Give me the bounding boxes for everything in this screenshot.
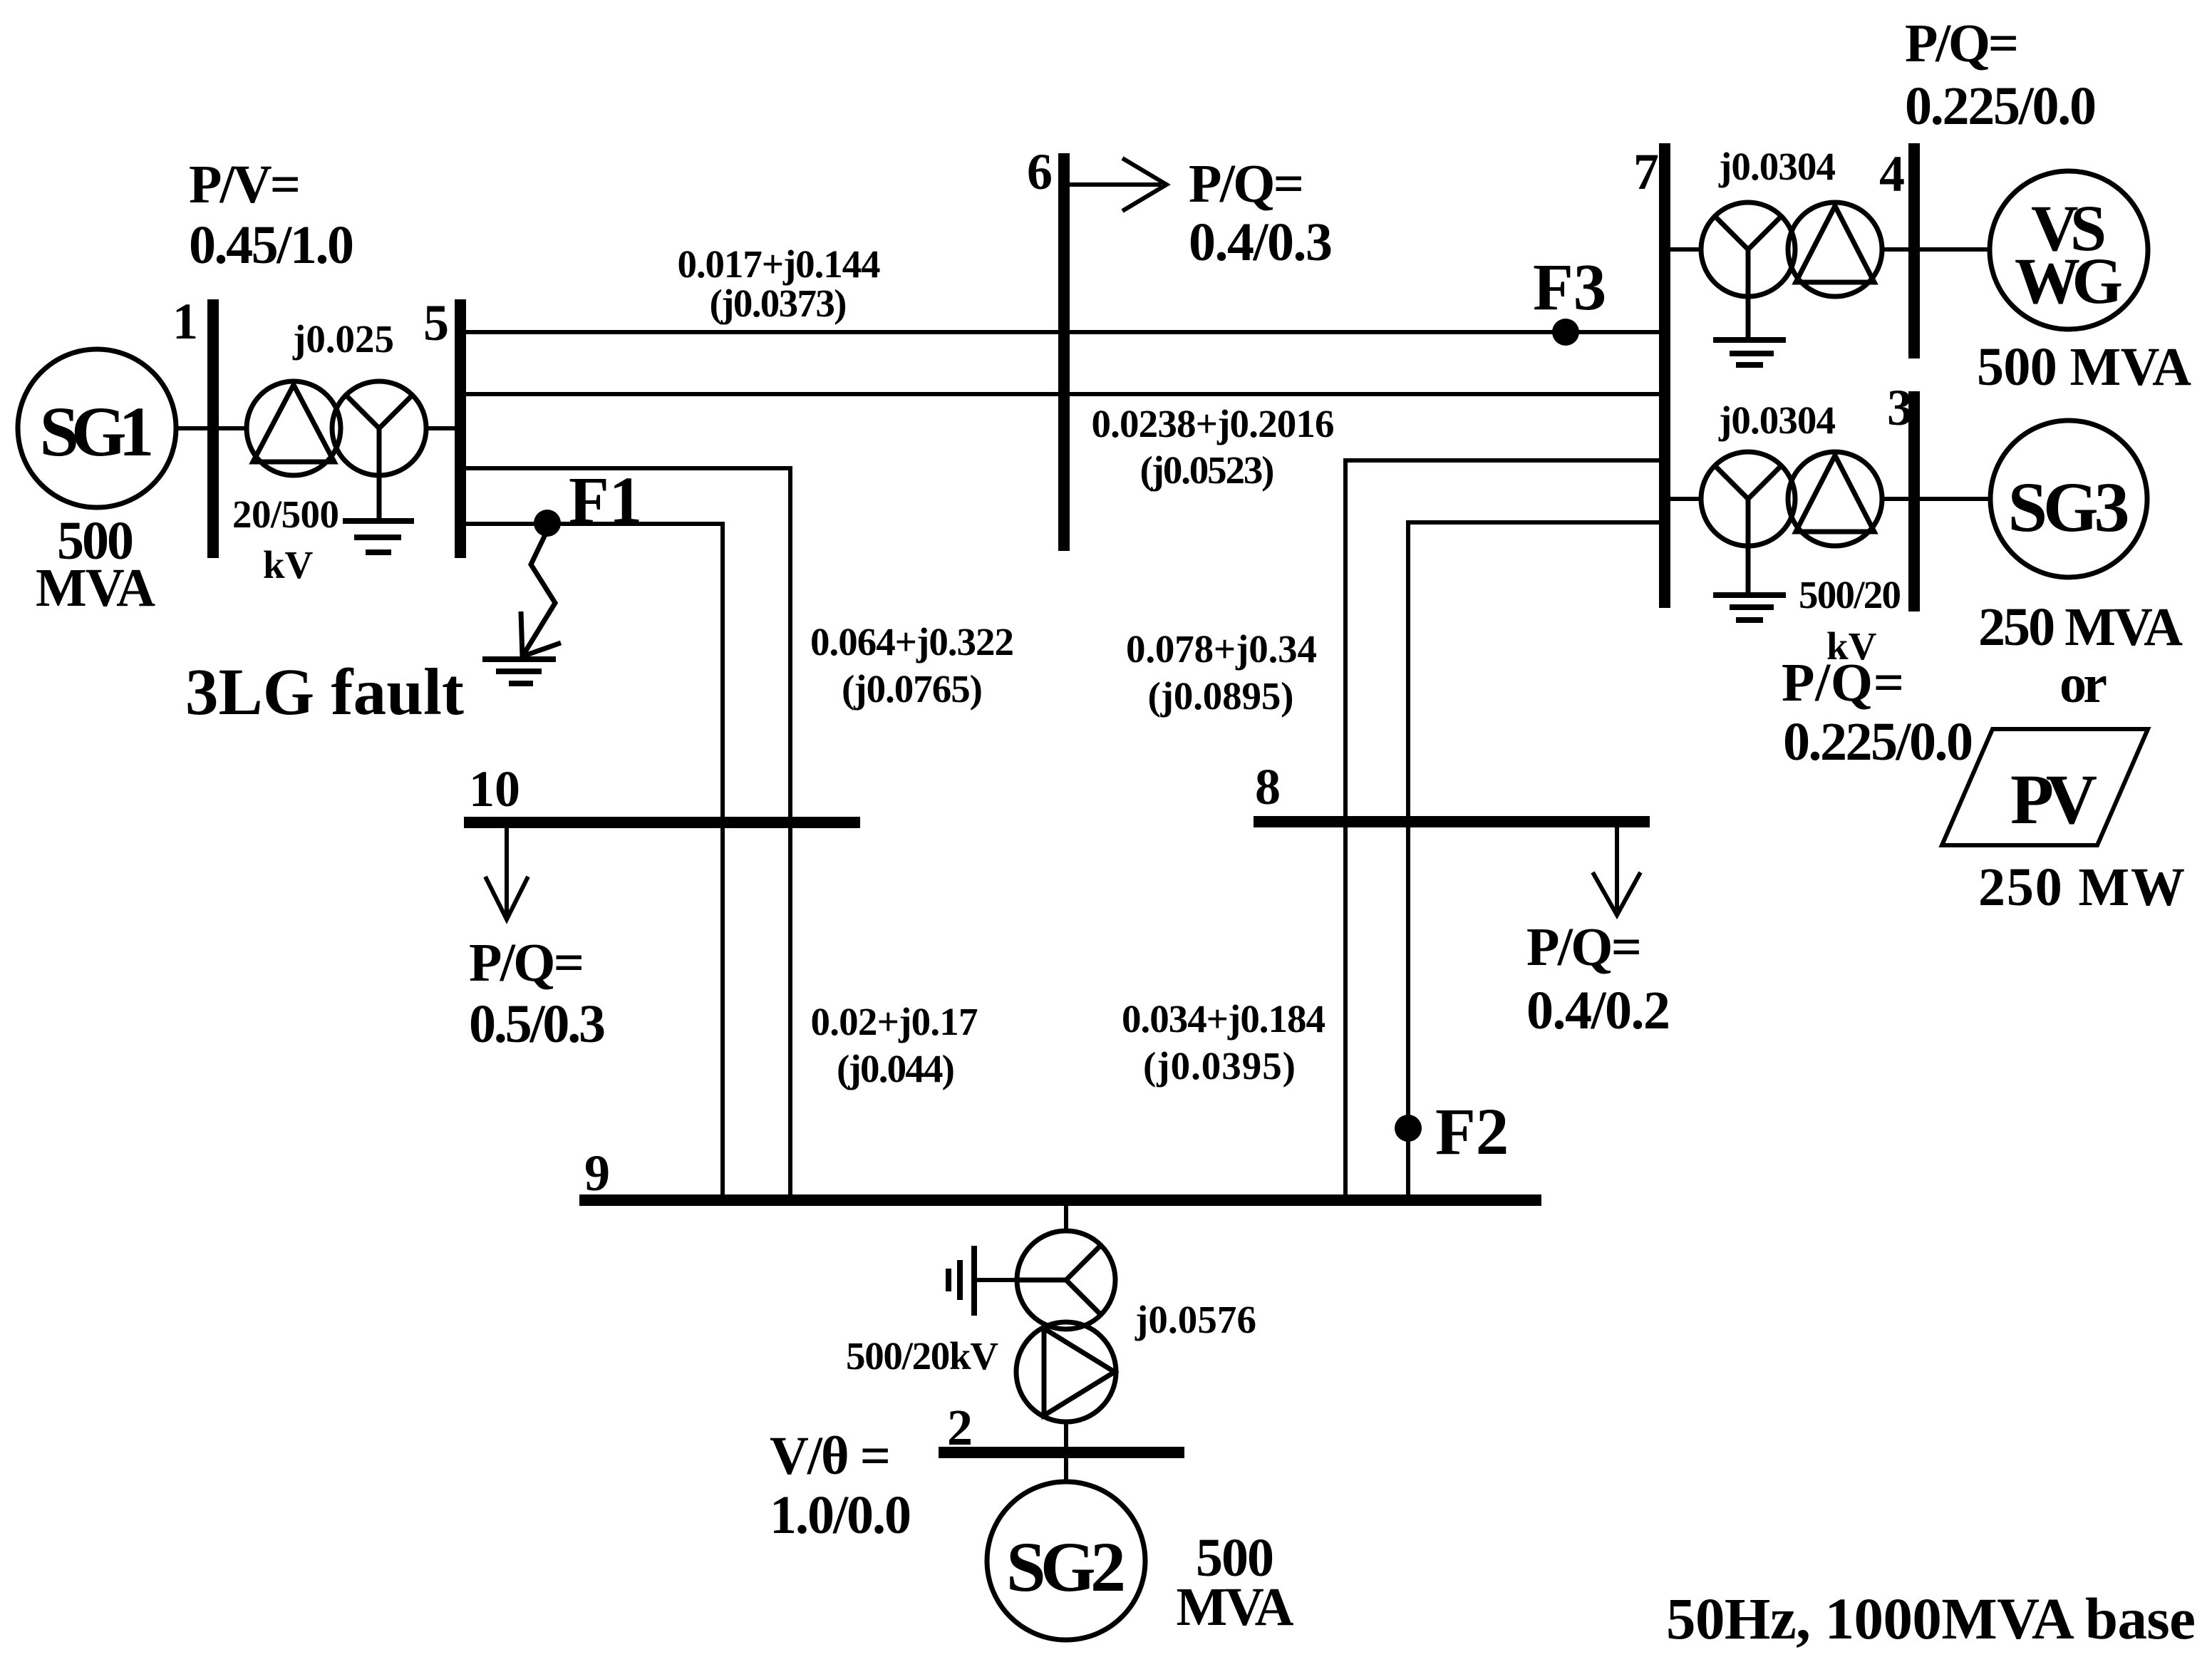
svg-text:j0.0576: j0.0576 [1135,1298,1256,1341]
transformer T92 delta winding [1016,1322,1116,1422]
svg-text:8: 8 [1255,758,1281,815]
svg-text:500/20kV: 500/20kV [846,1334,998,1378]
svg-text:0.5/0.3: 0.5/0.3 [469,994,606,1054]
ground of fault F1 [482,659,556,683]
svg-text:PV: PV [2010,760,2097,839]
bus 7 [1659,143,1670,608]
svg-text:(j0.0395): (j0.0395) [1143,1044,1296,1088]
node F1 fault point [534,510,561,537]
svg-text:F1: F1 [569,464,642,537]
svg-text:j0.0304: j0.0304 [1718,398,1836,442]
label line 5-9 impedance 0.064+j0.322 (j0.0765) [810,620,1014,711]
bus 5 [455,299,466,558]
svg-text:(j0.0895): (j0.0895) [1148,674,1294,718]
svg-text:P/V=: P/V= [189,155,301,215]
label P/Q= 0.225/0.0 at bus 4 [1905,14,2097,136]
svg-text:P/Q=: P/Q= [1189,154,1304,214]
svg-text:F2: F2 [1435,1095,1509,1169]
wire bus 1 to transformer T1 [219,426,248,430]
wire line 5-6-7 circuit 1 [466,330,1659,334]
svg-text:j0.025: j0.025 [292,317,394,361]
svg-text:kV: kV [263,543,314,587]
svg-text:0.017+j0.144: 0.017+j0.144 [678,242,881,286]
label SG1 rating 500 MVA [36,511,155,618]
bus 10 [464,817,860,828]
svg-text:7: 7 [1633,143,1659,200]
label line 5-6 impedance 0.017+j0.144 (j0.0373) [678,242,881,325]
svg-text:2: 2 [947,1399,973,1456]
transformer T1 wye winding [332,381,426,518]
label V/theta = 1.0/0.0 [770,1426,911,1545]
svg-text:0.4/0.3: 0.4/0.3 [1189,212,1333,272]
svg-text:5: 5 [423,294,449,351]
wire bus 3 to SG3 [1920,497,1992,501]
wire line 5-7 circuit 2 [466,392,1659,396]
svg-text:50Hz, 1000MVA base: 50Hz, 1000MVA base [1666,1586,2196,1651]
label P/Q= 0.225/0.0 at bus 3 [1782,653,1973,772]
wire bus 2 to SG2 [1064,1457,1068,1483]
label load bus 6 P/Q= 0.4/0.3 [1189,154,1333,272]
svg-text:10: 10 [469,760,520,817]
wire T74 to bus 4 [1882,247,1910,252]
bus 1 [207,299,219,558]
svg-text:3LG fault: 3LG fault [185,656,464,729]
svg-text:(j0.0373): (j0.0373) [710,282,847,325]
label line 9-10 impedance 0.02+j0.17 (j0.044) [811,1000,978,1090]
svg-text:MVA: MVA [36,558,155,618]
node F2 fault point [1395,1115,1422,1142]
svg-text:9: 9 [584,1145,610,1202]
bus 2 [939,1447,1184,1458]
svg-text:0.078+j0.34: 0.078+j0.34 [1126,627,1317,671]
node F3 fault point on line 5-7 [1552,319,1579,346]
wire T1 to bus 5 [426,426,456,430]
svg-text:3: 3 [1887,379,1913,436]
svg-text:SG1: SG1 [40,392,155,471]
label T1 ratio 20/500 kV [232,492,339,587]
transformer T1 delta winding [247,381,341,475]
wire line 7-8 [1345,460,1659,1194]
label line 8-9 impedance 0.034+j0.184 (j0.0395) [1122,997,1325,1088]
transformer T92 wye winding [1017,1231,1115,1329]
label P/V= 0.45/1.0 [189,155,354,275]
svg-text:0.034+j0.184: 0.034+j0.184 [1122,997,1325,1041]
transformer T73 delta winding [1788,452,1882,546]
svg-text:0.02+j0.17: 0.02+j0.17 [811,1000,978,1043]
wire SG1 to bus 1 [175,426,209,430]
bus 8 [1254,816,1650,827]
bus 9 [579,1194,1541,1206]
svg-text:500 MVA: 500 MVA [1977,337,2191,397]
label SG2 rating 500 MVA [1177,1528,1294,1637]
wire bus 9 to transformer T92 [1064,1206,1068,1232]
svg-text:(j0.0523): (j0.0523) [1140,448,1275,492]
wire T92 to bus 2 [1064,1422,1068,1448]
ground of T73 neutral [1713,595,1786,620]
svg-text:MVA: MVA [1177,1577,1294,1637]
generator PV photovoltaic unit [1942,729,2148,845]
svg-text:6: 6 [1027,143,1053,200]
svg-text:4: 4 [1879,145,1905,202]
ground of T74 neutral [1713,340,1786,365]
label line 7-8 impedance 0.078+j0.34 (j0.0895) [1126,627,1317,718]
generator SG1 [18,349,176,507]
svg-text:20/500: 20/500 [232,492,339,536]
svg-text:0.0238+j0.2016: 0.0238+j0.2016 [1092,402,1335,445]
svg-text:SG3: SG3 [2008,468,2130,547]
generator SG3 [1990,420,2147,577]
wire line 7-9 with fault point F2 [1408,522,1659,1194]
bus 3 [1908,391,1920,611]
label line 5-7 impedance 0.0238+j0.2016 (j0.0523) [1092,402,1335,492]
svg-text:0.4/0.2: 0.4/0.2 [1526,981,1670,1041]
svg-text:P/Q=: P/Q= [1526,917,1642,977]
svg-text:j0.0304: j0.0304 [1718,145,1836,188]
load arrow at bus 8 [1593,827,1640,915]
svg-text:WG: WG [2015,244,2123,317]
transformer T73 wye winding [1701,452,1795,593]
wire bus 4 to wind generator [1920,247,1991,252]
ground lead of T92 neutral [974,1278,1017,1282]
wire line 5-9 circuit 1 [466,468,790,1194]
svg-text:(j0.0765): (j0.0765) [842,667,983,711]
ground of T92 neutral [949,1246,974,1316]
svg-text:250 MW: 250 MW [1978,857,2185,917]
fault lightning arrow at F1 [521,530,561,656]
svg-text:V/θ =: V/θ = [770,1426,891,1486]
svg-text:0.225/0.0: 0.225/0.0 [1783,712,1973,772]
generator SG2 [987,1482,1145,1640]
svg-text:1.0/0.0: 1.0/0.0 [770,1485,911,1545]
ground of T1 neutral [343,521,414,552]
transformer T74 wye winding [1701,202,1795,338]
load arrow at bus 6 [1070,158,1167,211]
label T73 ratio 500/20 kV [1799,573,1901,668]
bus 4 [1908,143,1920,358]
svg-text:0.225/0.0: 0.225/0.0 [1905,76,2097,136]
wire bus 7 to transformer T73 [1670,497,1702,501]
svg-text:P/Q=: P/Q= [1905,14,2019,73]
generator VSWG variable speed wind generator [1990,171,2148,329]
label load bus 10 P/Q= 0.5/0.3 [469,933,606,1054]
svg-text:500/20: 500/20 [1799,573,1901,616]
svg-text:0.064+j0.322: 0.064+j0.322 [810,620,1014,664]
svg-text:P/Q=: P/Q= [1782,653,1904,713]
wire line 5-9 circuit 2 with fault point F1 [466,524,723,1194]
svg-text:or: or [2059,654,2107,714]
transformer T74 delta winding [1788,202,1882,296]
svg-text:(j0.044): (j0.044) [837,1047,955,1090]
load arrow at bus 10 [485,828,528,919]
wire bus 7 to transformer T74 [1670,247,1702,252]
label load bus 8 P/Q= 0.4/0.2 [1526,917,1670,1041]
svg-text:1: 1 [172,293,198,350]
svg-text:0.45/1.0: 0.45/1.0 [189,215,354,275]
bus 6 [1058,153,1070,551]
svg-text:F3: F3 [1533,251,1606,324]
svg-text:250 MVA: 250 MVA [1978,597,2183,657]
wire T73 to bus 3 [1882,497,1910,501]
svg-text:SG2: SG2 [1006,1527,1126,1606]
svg-text:P/Q=: P/Q= [469,933,584,993]
